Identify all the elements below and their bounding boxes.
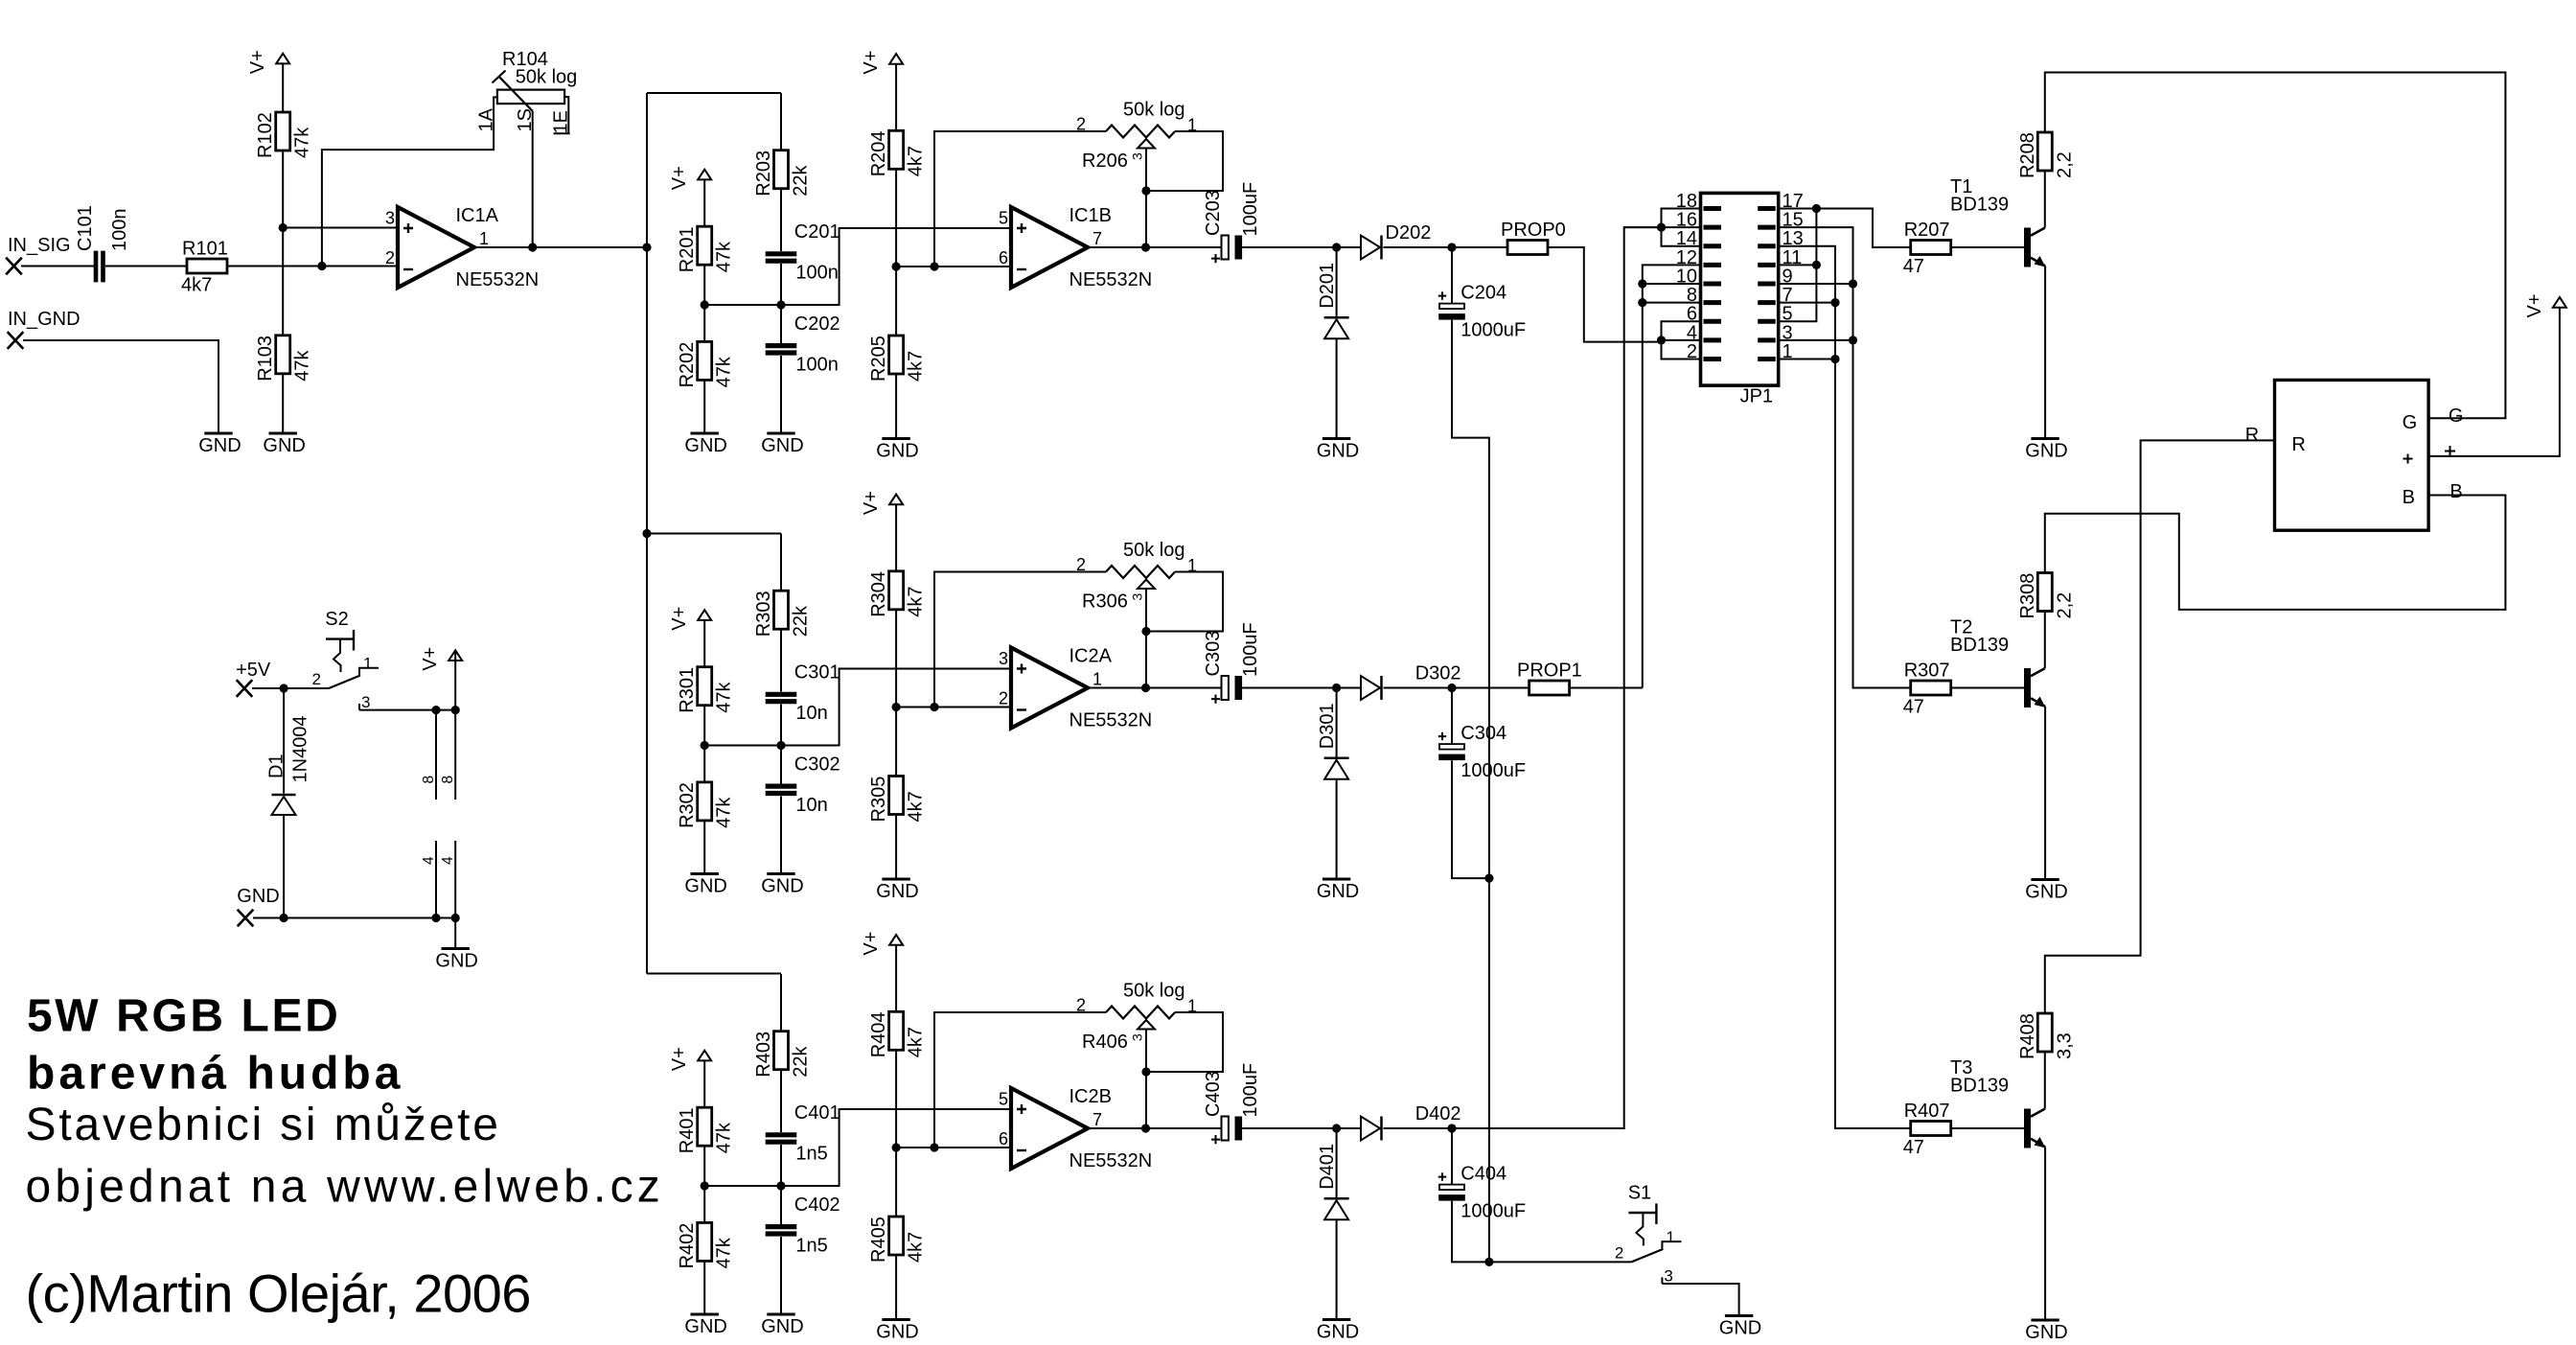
svg-text:2: 2 — [385, 248, 395, 267]
wire T2 emitter to ground — [2044, 707, 2046, 880]
svg-text:C301: C301 — [794, 662, 840, 684]
svg-text:GND: GND — [2025, 441, 2067, 462]
svg-text:V+: V+ — [247, 50, 268, 74]
wire R405 to ground — [895, 1255, 897, 1320]
svg-text:47: 47 — [1903, 1137, 1924, 1158]
ground C302 — [767, 872, 794, 875]
resistor R201 47k — [698, 226, 712, 265]
junction wiper pin1 — [1141, 186, 1150, 195]
ground T2 — [2031, 878, 2058, 881]
wire S2 pin3 to V+ rail — [359, 709, 455, 711]
svg-text:100n: 100n — [795, 263, 839, 284]
svg-text:1n5: 1n5 — [795, 1235, 827, 1256]
V+ power R304 — [889, 495, 903, 505]
svg-text:GND: GND — [684, 435, 726, 456]
wire C303 to D302 — [1242, 687, 1361, 689]
op-amp IC1B NE5532N — [1011, 207, 1088, 288]
svg-text:V+: V+ — [669, 166, 690, 190]
junction node feedback/-in — [317, 262, 326, 270]
wire IC2B output to C403 — [1088, 1127, 1222, 1129]
svg-text:D201: D201 — [1317, 263, 1338, 309]
wire JP1 pins 15-9-3 to R307 — [1779, 227, 1911, 687]
wire R404 to R405 — [895, 1050, 897, 1217]
wire junction row to +input — [704, 1109, 1011, 1186]
svg-text:GND: GND — [1317, 441, 1359, 462]
wire R402 to ground — [703, 1261, 705, 1314]
junction D1 ground — [280, 914, 288, 922]
svg-text:6: 6 — [999, 1129, 1008, 1148]
svg-text:JP1: JP1 — [1740, 386, 1773, 407]
svg-text:1N4004: 1N4004 — [290, 715, 311, 782]
wire junction row to +input — [704, 228, 1011, 305]
svg-text:GND: GND — [435, 951, 477, 972]
wire R206 pin1 to wiper — [1146, 131, 1224, 191]
wire junction to PROP0 — [1452, 246, 1507, 248]
svg-text:50k log: 50k log — [1123, 540, 1185, 561]
svg-text:C202: C202 — [794, 313, 840, 335]
svg-text:R204: R204 — [868, 130, 889, 176]
wire JP1 pin11 stub — [1779, 264, 1817, 266]
wire feed to R203 — [780, 93, 782, 151]
resistor R405 4k7 — [889, 1217, 904, 1255]
wire to C304 — [1451, 688, 1453, 745]
svg-text:3,3: 3,3 — [2054, 1032, 2075, 1059]
svg-text:6: 6 — [999, 248, 1008, 267]
resistor R308 2,2 — [2037, 573, 2052, 612]
capacitor C301 10n — [766, 692, 797, 697]
resistor R203 22k — [774, 151, 789, 189]
ground T3 — [2031, 1319, 2058, 1322]
svg-text:R: R — [2291, 434, 2305, 455]
pin JP1 4 — [1704, 337, 1722, 342]
capacitor C203 100uF — [1222, 236, 1229, 260]
terminal X +5V — [237, 680, 253, 697]
wire to C204 — [1451, 247, 1453, 304]
terminal X IN_SIG — [6, 258, 22, 275]
svg-text:IC2B: IC2B — [1069, 1086, 1112, 1107]
resistor PROP0 — [1507, 241, 1548, 255]
wire JP1 pins 12-10-8 bracket to PROP1 — [1643, 265, 1701, 687]
potentiometer R306 50k log — [1106, 566, 1175, 578]
svg-text:5: 5 — [999, 1090, 1008, 1109]
svg-text:(c)Martin Olejár, 2006: (c)Martin Olejár, 2006 — [26, 1264, 531, 1324]
resistor R408 3,3 — [2037, 1013, 2052, 1052]
transistor T3 BD139 — [2024, 1109, 2031, 1148]
svg-text:7: 7 — [1092, 1110, 1102, 1129]
junction JP1 pin11 — [1812, 261, 1821, 269]
capacitor C302 10n — [766, 783, 797, 788]
wire D401 to ground — [1336, 1219, 1338, 1319]
svg-text:50k log: 50k log — [1123, 100, 1185, 121]
wire R407 to T3 base — [1951, 1127, 2024, 1129]
svg-text:47k: 47k — [292, 350, 313, 382]
wire junction row to +input — [704, 669, 1011, 746]
svg-text:D1: D1 — [266, 754, 287, 778]
junction feed tap channel2 — [642, 529, 651, 538]
wire R103 to ground — [282, 374, 284, 433]
wire IC2 pin4 stub to ground — [454, 841, 456, 949]
wire D301 to ground — [1336, 779, 1338, 879]
wire junction to C202 — [780, 305, 782, 343]
svg-text:V+: V+ — [420, 647, 441, 671]
svg-text:4k7: 4k7 — [906, 351, 927, 382]
svg-text:4k7: 4k7 — [906, 146, 927, 176]
svg-text:G: G — [2449, 406, 2464, 427]
V+ power R102 — [276, 54, 289, 64]
junction wiper pin1 — [1141, 627, 1150, 636]
junction IC2 pin8 — [451, 706, 460, 714]
junction JP1 pin17 — [1812, 204, 1821, 213]
pin JP1 16 — [1704, 225, 1722, 230]
wire T3 collector to R408 — [2044, 1052, 2046, 1109]
svg-text:BD139: BD139 — [1950, 1076, 2009, 1097]
resistor R402 47k — [698, 1222, 712, 1261]
svg-text:GND: GND — [1719, 1318, 1761, 1339]
junction JP1 pin1 — [1830, 355, 1839, 363]
pin R104 1E stub — [554, 97, 570, 133]
svg-text:IC2A: IC2A — [1069, 646, 1113, 667]
junction feedback -input — [930, 1143, 938, 1151]
wire C302 to ground — [780, 797, 782, 874]
wire V+ to R204 — [895, 64, 897, 131]
svg-text:5W RGB LED: 5W RGB LED — [27, 991, 340, 1042]
potentiometer R406 50k log — [1106, 1007, 1175, 1019]
svg-text:GND: GND — [761, 876, 803, 897]
svg-text:1: 1 — [479, 229, 489, 248]
wire R102 to R103 bias divider — [282, 151, 284, 336]
capacitor C204 1000uF — [1439, 304, 1464, 310]
wire D302 to C304 junction — [1384, 687, 1453, 689]
svg-text:NE5532N: NE5532N — [1069, 710, 1153, 731]
pin JP1 5 — [1758, 319, 1776, 324]
svg-text:R203: R203 — [753, 151, 774, 197]
pin JP1 2 — [1704, 357, 1722, 361]
wire T1 collector to R208 — [2044, 171, 2046, 228]
svg-text:47k: 47k — [714, 797, 735, 828]
wire R104 wiper 1S to output — [532, 111, 534, 247]
svg-text:C201: C201 — [794, 221, 840, 243]
svg-text:IC1B: IC1B — [1069, 205, 1112, 226]
terminal X GND — [238, 910, 254, 927]
resistor R403 22k — [774, 1032, 789, 1070]
junction bias divider to +in — [279, 223, 287, 232]
junction C404 — [1447, 1124, 1456, 1132]
pin JP1 10 — [1704, 281, 1722, 286]
svg-text:1n5: 1n5 — [795, 1144, 827, 1165]
potentiometer R206 50k log — [1106, 126, 1175, 138]
ground D301 — [1322, 878, 1350, 881]
svg-text:5: 5 — [999, 209, 1008, 228]
svg-text:R406: R406 — [1082, 1032, 1128, 1053]
V+ power R404 — [889, 935, 903, 945]
wire T2 collector to R308 — [2044, 612, 2046, 669]
svg-text:GND: GND — [263, 435, 305, 456]
wire -input — [896, 266, 1011, 267]
wire R207 to T1 base — [1951, 246, 2024, 248]
svg-text:7: 7 — [1092, 229, 1102, 248]
svg-text:GND: GND — [684, 1316, 726, 1337]
wire R203 to C201 — [780, 189, 782, 251]
wire feedback riser — [934, 1012, 1106, 1148]
svg-text:C403: C403 — [1203, 1071, 1224, 1117]
ground C202 — [767, 432, 794, 435]
junction C401 C402 — [776, 1181, 785, 1190]
wire C304 bottom to discharge bus — [1452, 760, 1489, 878]
svg-text:R302: R302 — [677, 782, 698, 828]
resistor R407 47 — [1911, 1122, 1951, 1136]
svg-text:IN_GND: IN_GND — [8, 309, 80, 330]
V+ power rail — [448, 650, 462, 661]
wire bias to IC1A non-inverting input — [283, 227, 398, 229]
svg-text:47k: 47k — [292, 127, 313, 158]
junction C201 C202 — [776, 300, 785, 309]
svg-text:C203: C203 — [1203, 190, 1224, 236]
svg-text:R306: R306 — [1082, 591, 1128, 613]
wire channel3 to JP1 pin16 group — [1452, 227, 1662, 1128]
svg-text:PROP1: PROP1 — [1517, 661, 1582, 682]
wire LED + to V+ — [2428, 308, 2560, 456]
wire junction to C402 — [780, 1186, 782, 1224]
svg-text:Stavebnici si můžete: Stavebnici si můžete — [26, 1100, 501, 1150]
svg-text:1000uF: 1000uF — [1460, 1201, 1526, 1222]
ground R202 — [691, 432, 719, 435]
transistor T2 BD139 — [2024, 668, 2031, 707]
pin JP1 7 — [1758, 300, 1776, 305]
svg-text:S2: S2 — [325, 609, 348, 630]
svg-text:C302: C302 — [794, 754, 840, 775]
wire IC1A output — [474, 246, 647, 248]
wire V+ to R304 — [895, 504, 897, 571]
wire R406 pin1 to wiper — [1146, 1012, 1224, 1072]
svg-text:R301: R301 — [677, 667, 698, 713]
wire R401 to R402 — [703, 1146, 705, 1222]
svg-text:100n: 100n — [109, 209, 130, 252]
junction feedback -input — [930, 703, 938, 711]
svg-text:4k7: 4k7 — [906, 791, 927, 822]
wire ground rail — [253, 917, 455, 919]
wire IN_SIG to C101 — [21, 266, 94, 267]
svg-text:GND: GND — [1317, 1322, 1359, 1343]
wire JP1 pins 13-7-1 to R407 — [1779, 246, 1911, 1128]
svg-text:D402: D402 — [1415, 1103, 1461, 1125]
wire R101 to IC1A inverting input — [227, 266, 398, 267]
svg-text:R: R — [2245, 425, 2259, 446]
svg-text:R402: R402 — [677, 1223, 698, 1269]
wire IC1 pin8 stub — [435, 710, 437, 800]
pin JP1 9 — [1758, 281, 1776, 286]
wire C401 to junction — [780, 1145, 782, 1186]
svg-text:R405: R405 — [868, 1217, 889, 1263]
svg-text:100uF: 100uF — [1240, 1063, 1261, 1118]
svg-text:NE5532N: NE5532N — [1069, 1150, 1153, 1171]
junction discharge bus ch2 — [1484, 874, 1493, 883]
wire V+ to R201 — [703, 179, 705, 226]
wire D1 to ground rail — [283, 815, 285, 918]
svg-text:100n: 100n — [795, 354, 839, 375]
svg-text:V+: V+ — [861, 932, 882, 956]
svg-text:GND: GND — [876, 881, 918, 902]
svg-text:C404: C404 — [1460, 1164, 1506, 1185]
wire to D201 — [1336, 247, 1338, 317]
junction R404 R405 -input — [892, 1143, 901, 1151]
wire -input — [896, 707, 1011, 708]
V+ power R401 — [698, 1051, 711, 1061]
svg-text:4: 4 — [421, 856, 437, 865]
svg-text:GND: GND — [1317, 881, 1359, 902]
svg-text:R201: R201 — [677, 226, 698, 272]
op-amp IC1A NE5532N — [398, 207, 474, 288]
junction discharge bus ch3 — [1484, 1258, 1493, 1266]
svg-text:R305: R305 — [868, 777, 889, 823]
wire C404 bottom to S1 — [1452, 1201, 1631, 1263]
svg-text:10n: 10n — [795, 703, 827, 724]
svg-text:3: 3 — [385, 209, 395, 228]
wire junction to PROP1 — [1452, 687, 1529, 689]
svg-text:4k7: 4k7 — [906, 587, 927, 617]
svg-text:R308: R308 — [2017, 573, 2038, 619]
svg-text:+5V: +5V — [236, 660, 271, 681]
wire T3 emitter to ground — [2044, 1147, 2046, 1320]
ground power rail — [442, 947, 470, 950]
svg-text:C101: C101 — [75, 205, 96, 251]
svg-text:R205: R205 — [868, 336, 889, 382]
wire signal feed bus vertical — [646, 93, 648, 974]
pin JP1 3 — [1758, 337, 1776, 342]
junction output wiper — [1141, 684, 1150, 692]
capacitor C404 1000uF — [1439, 1185, 1464, 1191]
ground T1 — [2031, 437, 2058, 440]
svg-text:barevná hudba: barevná hudba — [27, 1048, 403, 1099]
svg-text:C303: C303 — [1203, 631, 1224, 677]
junction IC2 pin4 — [451, 914, 460, 922]
svg-text:3: 3 — [999, 649, 1008, 668]
diode D302 — [1361, 676, 1380, 700]
resistor R401 47k — [698, 1107, 712, 1146]
svg-text:G: G — [2403, 412, 2418, 433]
svg-text:47k: 47k — [714, 1237, 735, 1268]
terminal X IN_GND — [8, 332, 24, 349]
svg-text:B: B — [2449, 481, 2462, 502]
wire S1 pin3 to ground — [1662, 1284, 1738, 1316]
wire IC1 pin4 stub — [435, 841, 437, 918]
wire V+ to R102 — [282, 63, 284, 112]
wire R201 to R202 — [703, 265, 705, 341]
wire JP1 pins 17-11-5 bracket — [1779, 209, 1817, 322]
wire JP1 pin1 stub — [1779, 358, 1835, 359]
ground R305 — [882, 878, 909, 881]
svg-text:1: 1 — [1092, 670, 1102, 689]
wire R208 to LED G pin — [2045, 73, 2506, 419]
wire +5V to D1 — [283, 688, 285, 794]
svg-text:R401: R401 — [677, 1107, 698, 1153]
junction divider C401 — [701, 1181, 709, 1190]
wire C201 to junction — [780, 264, 782, 305]
svg-text:R102: R102 — [255, 112, 276, 158]
V+ power R201 — [698, 170, 711, 180]
wire JP1 pin16 stub to feed — [1624, 226, 1701, 228]
diode D401 — [1324, 1197, 1349, 1200]
wire V+ to R404 — [895, 945, 897, 1012]
wire JP1 pin3 stub — [1779, 339, 1853, 341]
junction IC1 pin8 — [431, 706, 440, 714]
wire R301 to R302 — [703, 706, 705, 782]
pin JP1 12 — [1704, 263, 1722, 267]
capacitor C403 100uF — [1222, 1117, 1229, 1141]
svg-text:1: 1 — [1666, 1228, 1674, 1246]
junction output wiper — [1141, 243, 1150, 251]
svg-text:NE5532N: NE5532N — [1069, 269, 1153, 290]
switch S1 — [1628, 1212, 1657, 1214]
wire PROP1 to JP1 pin8 group — [1570, 687, 1643, 689]
junction C301 C302 — [776, 741, 785, 750]
ground D401 — [1322, 1318, 1350, 1321]
svg-text:R207: R207 — [1904, 220, 1950, 241]
pin JP1 14 — [1704, 243, 1722, 248]
capacitor C201 100n — [766, 251, 797, 256]
pin label + inside — [2403, 454, 2413, 464]
pin JP1 8 — [1704, 300, 1722, 305]
op-amp IC2B NE5532N — [1011, 1088, 1088, 1169]
svg-text:3: 3 — [1130, 593, 1145, 601]
wire JP1 pin17 to R207 — [1779, 209, 1911, 248]
svg-text:R404: R404 — [868, 1011, 889, 1057]
svg-text:1: 1 — [363, 655, 372, 673]
svg-text:2: 2 — [999, 689, 1008, 708]
junction R204 R205 -input — [892, 262, 901, 270]
svg-text:GND: GND — [684, 876, 726, 897]
junction JP1 pin3 — [1849, 336, 1857, 344]
op-amp IC2A NE5532N — [1011, 648, 1088, 729]
wire R403 to C401 — [780, 1070, 782, 1132]
junction output wiper — [1141, 1124, 1150, 1132]
svg-text:4k7: 4k7 — [906, 1027, 927, 1057]
wire C204 bottom to discharge bus — [1452, 320, 1489, 1263]
capacitor C402 1n5 — [766, 1224, 797, 1229]
svg-text:2,2: 2,2 — [2054, 592, 2075, 619]
pin JP1 13 — [1758, 243, 1776, 248]
svg-text:D302: D302 — [1415, 663, 1461, 684]
svg-text:22k: 22k — [791, 164, 812, 196]
wire IC2A output to C303 — [1088, 687, 1222, 689]
svg-text:47k: 47k — [714, 1122, 735, 1153]
svg-text:S1: S1 — [1628, 1182, 1651, 1203]
wire JP1 pins 6-4-2 bracket — [1662, 321, 1701, 359]
diode D202 — [1361, 236, 1380, 260]
resistor R205 4k7 — [889, 336, 904, 374]
wire R406 wiper to output — [1145, 1030, 1147, 1129]
svg-text:2: 2 — [1076, 115, 1086, 134]
svg-text:R307: R307 — [1904, 661, 1950, 682]
wire R206 wiper to output — [1145, 149, 1147, 248]
junction D201 — [1332, 243, 1341, 251]
svg-text:V+: V+ — [861, 51, 882, 75]
svg-text:100uF: 100uF — [1240, 622, 1261, 677]
svg-text:D301: D301 — [1317, 703, 1338, 749]
svg-text:4k7: 4k7 — [906, 1232, 927, 1263]
svg-text:C401: C401 — [794, 1102, 840, 1124]
wire feedback to R104 pin 1A — [322, 97, 497, 266]
junction JP1 pin8 — [1638, 298, 1646, 307]
wire -input — [896, 1147, 1011, 1148]
svg-text:R408: R408 — [2017, 1013, 2038, 1059]
ground R405 — [882, 1318, 909, 1321]
wire R408 to LED R pin — [2045, 440, 2275, 1013]
junction divider C201 — [701, 300, 709, 309]
resistor R204 4k7 — [889, 130, 904, 169]
resistor R305 4k7 — [889, 777, 904, 815]
wire PROP0 to JP1 pin4 group — [1548, 247, 1662, 342]
wire to D401 — [1336, 1128, 1338, 1198]
